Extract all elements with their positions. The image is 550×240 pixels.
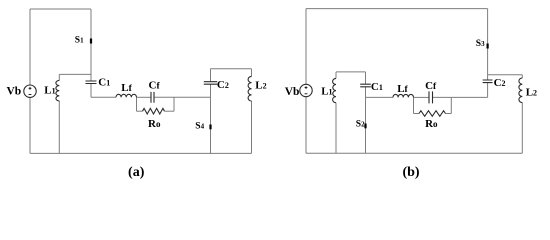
svg-text:C1: C1	[371, 81, 383, 93]
svg-text:L2: L2	[255, 80, 266, 92]
svg-text:L1: L1	[44, 85, 55, 97]
svg-text:S4: S4	[195, 122, 204, 132]
svg-text:(b): (b)	[402, 165, 419, 180]
svg-text:S3: S3	[476, 39, 485, 49]
svg-text:Lf: Lf	[121, 82, 132, 94]
svg-text:L2: L2	[526, 87, 537, 99]
svg-text:Ro: Ro	[148, 118, 161, 130]
svg-text:Cf: Cf	[425, 80, 437, 92]
svg-text:Vb: Vb	[285, 86, 300, 98]
svg-text:C2: C2	[494, 77, 506, 89]
svg-text:S2: S2	[356, 119, 365, 129]
svg-text:Ro: Ro	[425, 118, 438, 130]
svg-text:L1: L1	[321, 85, 332, 97]
svg-text:Vb: Vb	[7, 86, 22, 98]
svg-text:C1: C1	[98, 77, 110, 89]
svg-text:Lf: Lf	[397, 83, 408, 95]
svg-text:Cf: Cf	[149, 79, 161, 91]
svg-text:(a): (a)	[128, 165, 145, 180]
svg-text:S1: S1	[75, 36, 84, 46]
svg-text:C2: C2	[217, 79, 229, 91]
